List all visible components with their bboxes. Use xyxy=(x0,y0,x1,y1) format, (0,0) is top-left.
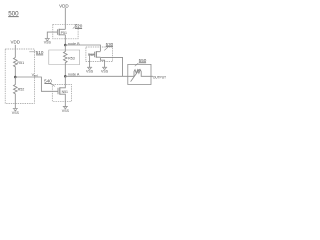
wire node A to box 550 xyxy=(65,75,128,77)
svg-text:550: 550 xyxy=(139,58,147,63)
wire N51 source to VSS xyxy=(64,101,66,106)
label 540 xyxy=(44,78,55,86)
resistor R52 xyxy=(14,77,18,103)
transistor N51 xyxy=(60,76,66,101)
wire P51 gate to VSS xyxy=(47,32,57,38)
label 510 xyxy=(29,50,44,55)
dashed box 510 xyxy=(5,49,34,103)
wire R52 to VSS xyxy=(14,103,16,108)
label Vref xyxy=(32,73,38,77)
ground VSS (bottom middle) xyxy=(63,106,68,108)
svg-text:P52: P52 xyxy=(88,53,94,57)
ground VSS (below box 530 right) xyxy=(102,67,107,69)
svg-text:R51: R51 xyxy=(17,61,24,65)
resistor R53 xyxy=(64,45,68,76)
ground VSS (bottom left) xyxy=(13,109,18,111)
dashed box 540 xyxy=(52,85,71,102)
svg-text:R52: R52 xyxy=(18,88,25,92)
svg-text:N51: N51 xyxy=(62,90,68,94)
node A xyxy=(64,75,67,78)
resistor R51 xyxy=(14,58,18,78)
wire P52 gate to VSS xyxy=(90,54,95,67)
svg-text:R53: R53 xyxy=(68,56,75,60)
arrow across variable resistor xyxy=(131,69,140,82)
svg-text:ref: ref xyxy=(35,73,38,77)
wire P51 drain to node B xyxy=(64,35,66,45)
svg-text:VDD: VDD xyxy=(11,40,21,45)
wire box 550 to OUTPUT xyxy=(151,75,153,77)
svg-text:530: 530 xyxy=(106,42,114,47)
svg-text:VSS: VSS xyxy=(44,41,52,45)
transistor P52 xyxy=(96,52,100,58)
wire tap to gate of N51 xyxy=(15,77,58,91)
wire VDD to R51 xyxy=(14,45,16,58)
svg-text:VSS: VSS xyxy=(101,69,109,73)
node divider tap xyxy=(14,76,17,79)
dashed box 520 xyxy=(53,24,78,39)
transistor P51 xyxy=(59,29,65,35)
svg-text:VDD: VDD xyxy=(59,4,69,9)
svg-text:VSS: VSS xyxy=(12,111,20,115)
svg-text:540: 540 xyxy=(44,78,52,83)
wire P52 drain to VSS xyxy=(100,58,104,67)
svg-text:510: 510 xyxy=(36,50,44,55)
svg-text:P51: P51 xyxy=(61,31,67,35)
label 530 xyxy=(104,42,113,51)
svg-text:VSS: VSS xyxy=(62,109,70,113)
ground VSS (left of box 520) xyxy=(45,39,50,41)
dashed box 530 xyxy=(86,47,113,62)
node B xyxy=(64,44,67,47)
box 550 xyxy=(128,64,151,84)
wire VDD to box 520 xyxy=(64,8,66,30)
label 550 xyxy=(135,58,147,66)
svg-text:VSS: VSS xyxy=(86,69,94,73)
variable resistor inside 550 xyxy=(128,70,151,77)
label 520 xyxy=(73,24,83,29)
figure number 500 xyxy=(8,10,19,17)
wire node B to box 530 xyxy=(65,45,100,51)
ground VSS (below box 530 left) xyxy=(87,67,92,69)
wire P52 drain to node A line xyxy=(100,57,122,76)
svg-text:500: 500 xyxy=(8,10,19,17)
svg-text:OUTPUT: OUTPUT xyxy=(153,76,166,80)
box around R53 xyxy=(49,50,80,65)
